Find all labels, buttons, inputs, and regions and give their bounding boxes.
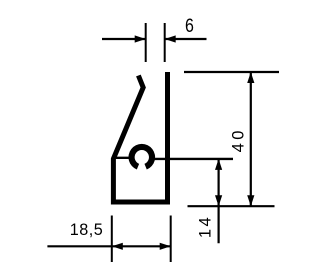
svg-text:18,5: 18,5 [70,221,104,239]
circular bead ring with bottom opening [128,144,155,170]
centre line, left segment from wall to ring [113,157,130,159]
dim 14 dimension line with tail [218,159,220,243]
dim 18,5 left arrowhead [112,243,123,250]
dim 40 top arrowhead [247,72,254,83]
dim 6 left extension line [145,23,147,62]
dim 14 top arrowhead [215,159,222,170]
dim 6 left dimension line [102,38,146,40]
dim 6 left arrowhead [135,35,146,42]
dim 40 top extension line [184,71,279,73]
svg-text:40: 40 [229,127,247,152]
dim 18,5 right extension line [170,216,172,263]
dim 40 / dim 14 bottom extension line [188,205,275,207]
profile section outline (lip, left wall, bottom, right wall) [113,72,167,202]
dim 18,5 left extension line [111,216,113,263]
dim 18,5 right arrowhead [160,243,171,250]
dim 40 bottom arrowhead [247,195,254,206]
dim 6 right dimension line [165,38,207,40]
dim 40 dimension line [250,72,252,206]
dim 18,5 dimension line with left tail [47,245,170,247]
dim 6 right arrowhead [165,35,176,42]
svg-text:14: 14 [196,215,214,238]
dim 6 right extension line [164,23,166,62]
centre line, right segment from ring; extension line for dim 14 [154,158,233,160]
svg-text:6: 6 [185,14,194,36]
dim 14 bottom arrowhead [215,195,222,206]
